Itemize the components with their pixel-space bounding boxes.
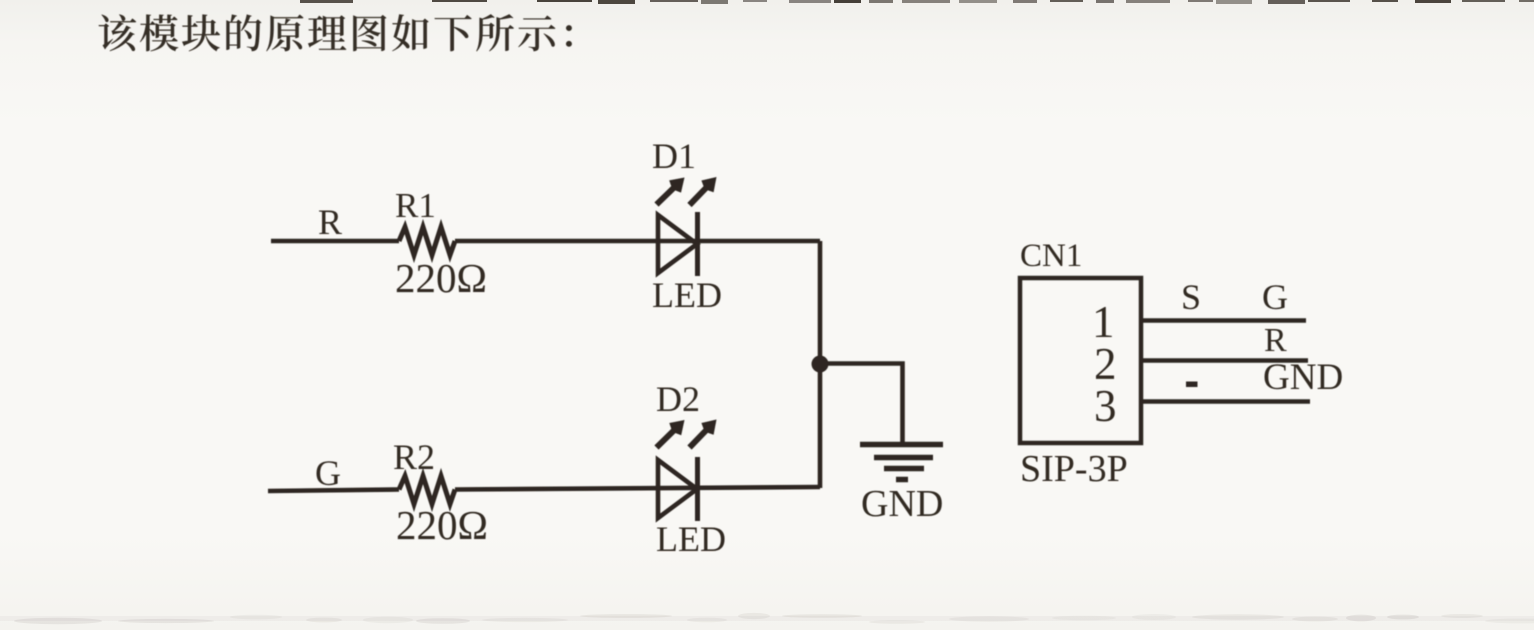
- pin label minus: [1186, 382, 1198, 388]
- ground symbol: [860, 445, 943, 480]
- wire R input segment: [271, 239, 399, 244]
- svg-text:D2: D2: [656, 379, 700, 419]
- svg-text:LED: LED: [656, 519, 726, 559]
- D2 light arrows: [657, 420, 717, 448]
- resistor R1: [399, 227, 455, 255]
- wire R2 to bus through LED D2: [455, 487, 820, 490]
- scan artifact: bleed-through band at bottom edge: [0, 613, 1534, 624]
- wire vertical bus: [818, 241, 823, 488]
- svg-text:SIP-3P: SIP-3P: [1020, 448, 1128, 490]
- svg-text:S: S: [1181, 277, 1201, 317]
- LED D1 cathode bar: [695, 212, 700, 276]
- scan artifact: cropped text line at top edge: [300, 0, 1534, 4]
- wire R1 to bus corner through LED D1: [455, 239, 820, 244]
- svg-text:220Ω: 220Ω: [395, 255, 487, 301]
- D1 light arrows: [657, 177, 717, 205]
- pin 1 wire: [1143, 318, 1306, 323]
- svg-text:GND: GND: [861, 483, 943, 525]
- LED D2 cathode bar: [695, 457, 700, 521]
- svg-text:CN1: CN1: [1020, 238, 1082, 274]
- svg-text:G: G: [1262, 277, 1288, 317]
- wire node to ground: [820, 364, 903, 444]
- pin 2 wire: [1143, 358, 1308, 363]
- caption text 该模块的原理图如下所示：: [99, 14, 572, 51]
- svg-text:D1: D1: [652, 136, 696, 176]
- svg-text:R1: R1: [395, 186, 436, 225]
- pin 3 wire: [1143, 399, 1310, 404]
- svg-text:220Ω: 220Ω: [396, 502, 488, 548]
- resistor R2: [399, 476, 455, 504]
- svg-text:R2: R2: [393, 437, 435, 477]
- wire G input segment: [268, 490, 399, 492]
- svg-text:3: 3: [1094, 381, 1117, 431]
- junction node: [812, 356, 829, 373]
- svg-text:G: G: [315, 453, 341, 493]
- svg-text:R: R: [1264, 322, 1287, 359]
- svg-text:R: R: [318, 202, 342, 242]
- connector CN1 box: [1020, 278, 1141, 443]
- LED D1 triangle: [658, 215, 697, 273]
- svg-text:GND: GND: [1263, 357, 1343, 398]
- svg-text:LED: LED: [652, 275, 722, 315]
- LED D2 triangle: [658, 460, 697, 518]
